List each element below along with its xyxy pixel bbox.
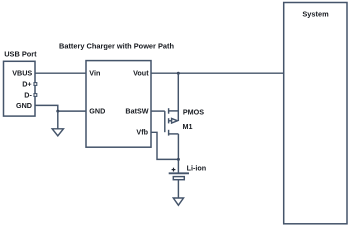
svg-text:BatSW: BatSW [125,106,148,115]
svg-text:Vin: Vin [89,69,100,78]
wire VBUS to Vin [35,72,86,74]
terminal D- [34,94,37,97]
USB Port connector box [4,61,36,116]
svg-text:System: System [302,9,329,18]
svg-text:M1: M1 [183,122,193,131]
svg-text:Battery Charger with Power Pat: Battery Charger with Power Path [59,42,174,51]
svg-text:Vfb: Vfb [136,128,148,137]
ground symbol GND1 [52,129,63,136]
svg-text:GND: GND [89,107,105,116]
svg-text:PMOS: PMOS [183,108,204,117]
ground symbol GND2 [173,198,183,205]
svg-text:VBUS: VBUS [12,69,32,78]
svg-text:GND: GND [16,101,32,110]
wire GND junction to ground [57,111,59,129]
wire BatSW to gate [151,110,165,112]
svg-text:D-: D- [24,90,32,99]
svg-text:D+: D+ [22,79,31,88]
junction Vout node [177,72,180,75]
battery BT1 Li-ion [169,159,189,198]
wire Vout to System [151,72,284,74]
terminal D+ [34,83,37,86]
svg-text:USB Port: USB Port [4,50,37,59]
battery plus sign [172,168,176,172]
junction battery node [177,158,180,161]
battery charger U1 box [86,61,151,148]
junction GND node [56,110,59,113]
transistor M1 PMOS [165,73,179,159]
System box [284,3,347,224]
svg-text:Li-ion: Li-ion [187,164,207,173]
svg-text:Vout: Vout [133,69,149,78]
wire USB GND to charger GND [35,105,86,111]
wire Vfb to battery node [151,132,178,159]
